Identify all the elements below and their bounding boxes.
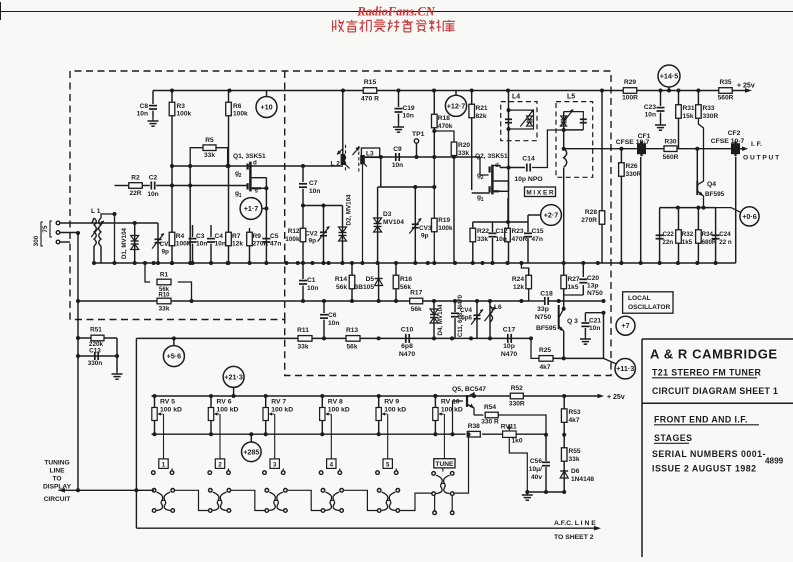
svg-text:4k7: 4k7 [539, 364, 550, 371]
svg-text:+5·6: +5·6 [167, 352, 182, 361]
svg-text:MV104: MV104 [383, 219, 404, 226]
svg-text:L4: L4 [512, 94, 520, 101]
svg-text:BF595: BF595 [536, 325, 557, 332]
svg-text:CIRCUIT DIAGRAM SHEET 1: CIRCUIT DIAGRAM SHEET 1 [652, 386, 778, 396]
svg-text:C13: C13 [89, 347, 101, 354]
svg-text:CFSE 10-7: CFSE 10-7 [711, 138, 745, 145]
svg-text:+ 25v: + 25v [607, 394, 625, 401]
svg-text:47n: 47n [532, 236, 543, 243]
svg-text:10n: 10n [215, 241, 226, 248]
svg-text:L6: L6 [494, 304, 502, 311]
svg-text:R20: R20 [458, 142, 470, 149]
svg-text:R19: R19 [438, 217, 450, 224]
svg-text:R21: R21 [476, 105, 488, 112]
svg-text:10n: 10n [196, 241, 207, 248]
svg-text:33k: 33k [158, 306, 169, 313]
svg-text:C18: C18 [540, 291, 553, 298]
svg-text:R15: R15 [364, 79, 377, 86]
svg-text:C8: C8 [140, 103, 149, 110]
svg-text:R35: R35 [719, 79, 731, 86]
svg-text:RadioFans.CN: RadioFans.CN [356, 5, 435, 19]
svg-text:DISPLAY: DISPLAY [43, 484, 72, 491]
svg-text:10n: 10n [392, 162, 403, 169]
svg-text:R17: R17 [410, 290, 422, 297]
svg-text:330 R: 330 R [481, 419, 499, 426]
svg-text:+1·7: +1·7 [244, 204, 259, 213]
svg-text:R7: R7 [232, 233, 241, 240]
svg-text:RV 9: RV 9 [384, 399, 399, 406]
svg-text:100R: 100R [622, 95, 638, 102]
svg-text:R6: R6 [233, 103, 242, 110]
svg-text:9p: 9p [162, 249, 170, 256]
svg-text:R13: R13 [346, 327, 358, 334]
svg-text:D4, MV104: D4, MV104 [437, 304, 444, 336]
svg-text:CV2: CV2 [305, 231, 318, 238]
svg-text:+0·6: +0·6 [742, 212, 757, 221]
svg-text:C2: C2 [149, 174, 158, 181]
svg-text:+11·3: +11·3 [616, 364, 634, 373]
svg-text:Q1, 3SK51: Q1, 3SK51 [233, 153, 266, 160]
svg-text:82k: 82k [476, 113, 487, 120]
svg-text:R25: R25 [539, 347, 551, 354]
svg-text:C21: C21 [589, 318, 601, 325]
svg-text:10n: 10n [307, 285, 318, 292]
svg-text:10p: 10p [503, 343, 515, 350]
svg-text:D3: D3 [383, 211, 392, 218]
svg-text:R29: R29 [624, 79, 636, 86]
svg-text:R1: R1 [160, 271, 169, 278]
svg-text:2: 2 [218, 461, 222, 468]
svg-text:TUNE: TUNE [435, 461, 454, 468]
svg-text:470 R: 470 R [361, 96, 379, 103]
svg-text:C6: C6 [328, 312, 337, 319]
svg-text:TO: TO [52, 476, 61, 483]
svg-text:RV 6: RV 6 [217, 399, 232, 406]
svg-text:+10: +10 [260, 103, 272, 112]
svg-text:LOCAL: LOCAL [628, 295, 651, 302]
svg-text:CV4: CV4 [460, 307, 473, 314]
svg-text:9p: 9p [421, 233, 429, 240]
svg-text:+285: +285 [243, 447, 259, 456]
svg-text:2: 2 [239, 173, 242, 179]
svg-text:100k: 100k [233, 111, 248, 118]
svg-text:C15: C15 [532, 228, 544, 235]
svg-text:R54: R54 [484, 404, 496, 411]
svg-text:N470: N470 [399, 351, 415, 358]
svg-text:100 kD: 100 kD [328, 407, 350, 414]
svg-text:R4: R4 [176, 233, 185, 240]
svg-text:L5: L5 [567, 94, 575, 101]
svg-text:5: 5 [386, 461, 390, 468]
svg-text:C23: C23 [644, 104, 656, 111]
svg-text:5p6: 5p6 [461, 315, 472, 322]
svg-text:+ 25v: + 25v [737, 82, 755, 89]
svg-text:10μ/: 10μ/ [529, 466, 542, 473]
svg-text:100 kD: 100 kD [384, 407, 406, 414]
svg-text:+21·3: +21·3 [224, 372, 243, 381]
svg-text:1N4148: 1N4148 [571, 476, 594, 483]
svg-text:R24: R24 [512, 276, 524, 283]
svg-text:10n: 10n [328, 320, 339, 327]
svg-text:R11: R11 [297, 327, 309, 334]
svg-text:100k: 100k [285, 236, 300, 243]
svg-text:CFSE 10-7: CFSE 10-7 [616, 139, 650, 146]
svg-text:56k: 56k [400, 284, 411, 291]
svg-text:R52: R52 [511, 385, 523, 392]
svg-text:CIRCUIT: CIRCUIT [44, 496, 71, 503]
svg-text:C56: C56 [530, 458, 542, 465]
svg-text:C3: C3 [196, 233, 205, 240]
svg-text:4k7: 4k7 [569, 417, 580, 424]
svg-text:R3: R3 [177, 103, 186, 110]
svg-text:680R: 680R [702, 239, 717, 246]
svg-text:10n: 10n [496, 236, 507, 243]
svg-text:33k: 33k [458, 150, 469, 157]
svg-text:FRONT END AND I.F.: FRONT END AND I.F. [654, 415, 748, 425]
svg-text:C12: C12 [496, 228, 508, 235]
svg-text:R26: R26 [626, 163, 638, 170]
svg-text:D1, MV104: D1, MV104 [121, 227, 128, 259]
svg-text:100k: 100k [438, 225, 453, 232]
svg-text:RV 5: RV 5 [160, 399, 175, 406]
svg-text:R22: R22 [477, 228, 489, 235]
svg-text:560R: 560R [663, 154, 679, 161]
svg-text:R16: R16 [400, 276, 412, 283]
svg-text:22R: 22R [129, 190, 141, 197]
svg-text:R32: R32 [682, 231, 694, 238]
svg-text:10n: 10n [147, 191, 158, 198]
svg-text:N750: N750 [587, 290, 603, 297]
svg-text:BF595: BF595 [705, 191, 725, 198]
svg-text:CV3: CV3 [419, 225, 432, 232]
svg-text:470k: 470k [438, 123, 453, 130]
svg-text:Q4: Q4 [707, 181, 716, 188]
svg-text:10n: 10n [309, 188, 320, 195]
svg-text:RV 7: RV 7 [271, 399, 286, 406]
svg-text:CF2: CF2 [728, 130, 741, 137]
svg-text:D5: D5 [366, 276, 375, 283]
svg-text:C4: C4 [215, 233, 224, 240]
svg-text:TUNING: TUNING [44, 460, 69, 467]
svg-text:33k: 33k [297, 344, 308, 351]
svg-text:R55: R55 [569, 448, 581, 455]
svg-text:C22: C22 [663, 231, 675, 238]
svg-text:1k0: 1k0 [512, 438, 523, 445]
svg-text:33k: 33k [477, 236, 488, 243]
svg-text:C5: C5 [270, 233, 279, 240]
svg-text:RV11: RV11 [501, 424, 517, 431]
svg-text:330R: 330R [703, 113, 719, 120]
svg-text:+2·7: +2·7 [544, 211, 559, 220]
svg-text:300: 300 [33, 235, 40, 246]
svg-text:100 kD: 100 kD [217, 407, 239, 414]
svg-text:12k: 12k [232, 241, 243, 248]
svg-text:10n: 10n [403, 113, 414, 120]
svg-text:1: 1 [481, 197, 484, 203]
svg-text:R12: R12 [288, 228, 300, 235]
svg-text:10n: 10n [645, 112, 656, 119]
svg-text:C24: C24 [719, 231, 731, 238]
svg-text:TO SHEET 2: TO SHEET 2 [554, 534, 594, 541]
svg-text:R14: R14 [335, 276, 347, 283]
svg-text:C7: C7 [309, 180, 318, 187]
svg-text:6p8: 6p8 [401, 343, 413, 350]
svg-text:+7: +7 [621, 321, 629, 330]
svg-text:1: 1 [162, 461, 166, 468]
svg-text:T21 STEREO FM TUNER: T21 STEREO FM TUNER [652, 368, 762, 378]
svg-text:Q2, 3SK51: Q2, 3SK51 [475, 153, 508, 160]
svg-text:1: 1 [239, 193, 242, 199]
svg-text:4899: 4899 [765, 457, 784, 466]
svg-text:100 kD: 100 kD [160, 407, 182, 414]
svg-text:C19: C19 [403, 105, 415, 112]
svg-text:3: 3 [273, 461, 277, 468]
svg-text:10p NPO: 10p NPO [514, 176, 542, 183]
svg-text:D6: D6 [571, 468, 580, 475]
svg-text:+14·5: +14·5 [660, 72, 679, 81]
svg-text:C20: C20 [587, 275, 599, 282]
svg-text:LINE: LINE [49, 468, 65, 475]
svg-text:C17: C17 [503, 327, 516, 334]
svg-text:R30: R30 [664, 139, 676, 146]
svg-text:R28: R28 [585, 209, 597, 216]
svg-text:N470: N470 [501, 351, 517, 358]
svg-text:TP1: TP1 [412, 131, 425, 138]
svg-text:1k5: 1k5 [568, 284, 579, 291]
svg-text:R51: R51 [90, 326, 102, 333]
svg-text:270R: 270R [581, 217, 597, 224]
svg-text:BB105: BB105 [353, 284, 374, 291]
svg-text:75: 75 [42, 225, 49, 233]
svg-text:56k: 56k [159, 287, 170, 293]
svg-text:R27: R27 [568, 276, 580, 283]
svg-text:R18: R18 [438, 115, 450, 122]
svg-text:SERIAL NUMBERS 0001-: SERIAL NUMBERS 0001- [652, 449, 766, 459]
svg-text:56k: 56k [411, 306, 422, 313]
svg-text:56k: 56k [346, 344, 357, 351]
svg-text:12k: 12k [513, 284, 524, 291]
svg-text:C9: C9 [393, 146, 402, 153]
svg-text:R33: R33 [703, 105, 715, 112]
svg-text:C14: C14 [522, 156, 535, 163]
svg-text:RV 8: RV 8 [328, 399, 343, 406]
svg-text:47n: 47n [270, 241, 281, 248]
svg-text:15k: 15k [683, 113, 694, 120]
svg-text:22n: 22n [663, 239, 674, 246]
svg-text:R5: R5 [205, 137, 214, 144]
svg-text:ISSUE 2 AUGUST 1982: ISSUE 2 AUGUST 1982 [652, 464, 757, 474]
svg-text:33k: 33k [204, 152, 215, 159]
svg-text:C1: C1 [307, 277, 316, 284]
svg-text:33k: 33k [569, 456, 580, 463]
svg-text:33p: 33p [537, 306, 549, 313]
svg-text:330R: 330R [509, 401, 525, 408]
svg-text:d: d [253, 159, 257, 166]
svg-text:STAGES: STAGES [654, 433, 693, 443]
svg-text:RV 10: RV 10 [441, 399, 460, 406]
svg-text:N750: N750 [535, 314, 551, 321]
svg-text:O U T P U T: O U T P U T [743, 155, 779, 162]
svg-text:4: 4 [330, 461, 334, 468]
svg-text:1k5: 1k5 [682, 239, 693, 246]
svg-text:Q5, BC547: Q5, BC547 [452, 386, 486, 393]
svg-text:100 kD: 100 kD [271, 407, 293, 414]
svg-text:R23: R23 [512, 228, 524, 235]
svg-text:R38: R38 [468, 423, 480, 430]
svg-text:I. F.: I. F. [751, 141, 762, 148]
svg-text:9p: 9p [309, 238, 317, 245]
svg-text:R2: R2 [131, 174, 140, 181]
svg-text:2: 2 [481, 175, 484, 181]
svg-text:L 1: L 1 [91, 208, 101, 215]
svg-text:A.F.C. L I N E: A.F.C. L I N E [554, 520, 596, 527]
svg-text:Q 3: Q 3 [567, 318, 578, 325]
svg-text:330n: 330n [88, 360, 103, 367]
svg-text:330R: 330R [626, 171, 642, 178]
svg-text:C10: C10 [401, 327, 414, 334]
svg-text:R31: R31 [683, 105, 695, 112]
svg-text:R9: R9 [253, 233, 262, 240]
svg-text:M I X E R: M I X E R [526, 189, 554, 196]
svg-text:R10: R10 [158, 293, 170, 299]
svg-text:40v: 40v [531, 474, 542, 481]
svg-text:A & R CAMBRIDGE: A & R CAMBRIDGE [650, 347, 778, 362]
svg-text:10n: 10n [137, 111, 148, 118]
svg-text:D2, MV104: D2, MV104 [346, 194, 353, 226]
svg-text:22 n: 22 n [719, 239, 732, 246]
svg-text:OSCILLATOR: OSCILLATOR [628, 304, 670, 311]
svg-text:+12·7: +12·7 [447, 101, 466, 110]
svg-text:R53: R53 [569, 409, 581, 416]
svg-text:56k: 56k [336, 284, 347, 291]
svg-text:100k: 100k [177, 111, 192, 118]
svg-text:13p: 13p [587, 283, 598, 290]
svg-text:10n: 10n [589, 325, 600, 332]
svg-text:560R: 560R [718, 95, 734, 102]
